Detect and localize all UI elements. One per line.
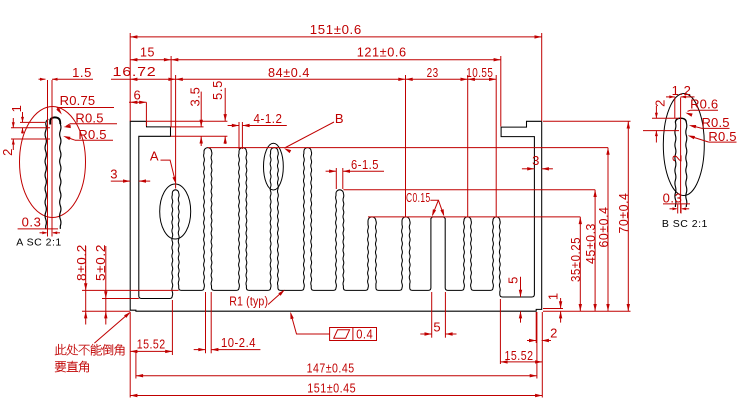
svg-text:147±0.45: 147±0.45 [307, 361, 355, 376]
svg-text:23: 23 [427, 65, 439, 80]
parallelism tolerance frame 0.4 with leader [290, 312, 376, 342]
svg-text:151±0.45: 151±0.45 [307, 381, 356, 396]
detail label B leader [284, 111, 344, 153]
detail A dimension 2 [0, 118, 15, 156]
svg-text:3: 3 [110, 167, 118, 182]
heatsink profile outline [130, 121, 542, 311]
dimension 147±0.45 (bottom) [136, 312, 537, 379]
dimension 15.52 (bottom right) [500, 299, 542, 364]
svg-text:121±0.6: 121±0.6 [357, 45, 407, 60]
detail A extension centerlines [48, 80, 53, 236]
svg-text:0.3: 0.3 [663, 190, 683, 205]
svg-text:5±0.2: 5±0.2 [93, 244, 108, 281]
dimension 60±0.4 (height, right column) [596, 148, 611, 312]
svg-text:5: 5 [433, 319, 441, 334]
svg-text:15: 15 [140, 45, 155, 60]
dimension 5±0.2 (first channel floor height) [93, 244, 108, 325]
svg-text:0.3: 0.3 [22, 215, 42, 230]
note: no chamfer here, must be right angle (Chinese) [55, 312, 131, 372]
dimension 15.52 (bottom left) [130, 300, 172, 398]
svg-text:C0.15: C0.15 [406, 190, 431, 205]
dimension 8±0.2 (left channel floor height) [74, 244, 89, 325]
dimensions 15 and 121±0.6 (top row 2) [130, 45, 501, 127]
dimension 10-2.4 (fin thickness, bottom) [194, 292, 261, 353]
dimension 6 (top-left step width) [129, 88, 146, 126]
right-side extension lines (fin tip levels) [208, 121, 631, 311]
detail A title text [16, 236, 61, 248]
svg-text:15.52: 15.52 [505, 348, 534, 363]
svg-text:4-1.2: 4-1.2 [254, 111, 283, 126]
dimension 70±0.4 (height, right column) [616, 121, 631, 311]
svg-text:2: 2 [670, 154, 685, 162]
svg-text:R0.6: R0.6 [690, 97, 718, 112]
dimensions 3.5 and 5.5 (top-left step heights) [147, 80, 228, 146]
detail A dimension 1.5 [39, 65, 94, 81]
dimension 45±0.3 (height, right column) [583, 190, 598, 311]
svg-text:60±0.4: 60±0.4 [596, 207, 611, 248]
detail B radius label R0.5 (lower) [688, 129, 737, 144]
left-side extension lines (floor levels) [82, 290, 179, 311]
svg-text:R0.5: R0.5 [75, 111, 103, 126]
svg-text:8±0.2: 8±0.2 [74, 244, 89, 281]
svg-text:1: 1 [9, 105, 24, 113]
detail A dimension 0.3 [18, 215, 60, 237]
svg-text:2: 2 [0, 148, 15, 156]
svg-text:B SC 2:1: B SC 2:1 [662, 218, 708, 230]
svg-text:1: 1 [545, 292, 560, 300]
svg-text:84±0.4: 84±0.4 [268, 65, 310, 80]
dimension 5 (right channel floor height) [506, 276, 523, 323]
dimension 6-1.5 (medium fin thickness) [326, 157, 384, 189]
detail callout ellipse A (main view) [160, 184, 191, 239]
svg-text:151±0.6: 151±0.6 [310, 22, 362, 37]
svg-text:70±0.4: 70±0.4 [616, 193, 631, 234]
detail B enclosing ellipse [663, 94, 704, 196]
svg-text:6-1.5: 6-1.5 [351, 157, 379, 172]
detail B enlarged fin tip (black) [675, 118, 687, 207]
detail B extension centerlines [675, 98, 681, 214]
detail A enlarged fin tip (black) [45, 117, 61, 229]
svg-text:6: 6 [133, 88, 141, 103]
svg-text:35±0.25: 35±0.25 [568, 237, 583, 282]
detail A radius label R0.5 (lower) [63, 127, 113, 142]
detail A radius label R0.75 [56, 93, 114, 115]
detail label A leader [150, 149, 176, 184]
detail A radius label R0.5 (upper) [64, 111, 118, 129]
svg-text:16.72: 16.72 [113, 64, 157, 79]
detail B radius label R0.6 [685, 97, 718, 117]
detail B dimension 2 (upper) [643, 99, 679, 142]
svg-text:3.5: 3.5 [188, 87, 203, 107]
fillet note R1 (typ) [229, 290, 285, 309]
svg-text:B: B [335, 111, 344, 126]
svg-text:5: 5 [506, 276, 521, 284]
detail B title text [662, 218, 708, 230]
svg-text:3: 3 [532, 153, 540, 168]
svg-text:0.4: 0.4 [356, 326, 373, 341]
dimension 3 (left wall thickness) [110, 167, 150, 183]
dimension 4-1.2 (tall fin thickness) [228, 111, 287, 149]
dimension 5 (wide fin width, bottom center) [420, 292, 456, 338]
detail B dimension 2 (centerline) [670, 154, 685, 162]
svg-text:A: A [150, 149, 159, 164]
svg-text:R1 (typ): R1 (typ) [229, 294, 268, 309]
svg-text:1.2: 1.2 [672, 83, 692, 98]
svg-text:2: 2 [653, 99, 668, 107]
svg-text:A SC 2:1: A SC 2:1 [16, 236, 61, 248]
svg-text:10.55: 10.55 [466, 65, 493, 80]
chamfer note C0.15 with V leader [406, 190, 444, 216]
svg-text:R0.75: R0.75 [60, 93, 96, 108]
detail B dimension 0.3 [663, 190, 690, 213]
svg-text:10-2.4: 10-2.4 [221, 335, 256, 350]
detail B dimension 1.2 [666, 83, 695, 98]
svg-text:15.52: 15.52 [137, 337, 166, 352]
svg-text:5.5: 5.5 [210, 80, 225, 100]
dimension 35±0.25 (height, right column) [568, 217, 583, 311]
detail A dimension 1 [9, 105, 50, 139]
dimension 1 (bottom-right step height) [543, 292, 563, 322]
dimension 3 (right wall thickness) [522, 153, 553, 170]
dimension 151±0.6 (top row 1)', overall width [130, 22, 542, 121]
dimensions 16.72 / 84±0.4 / 23 / 10.55 (top row 3) [111, 64, 496, 217]
dimension 2 (bottom-right step width) [527, 312, 558, 343]
dimension 151±0.45 (bottom) [130, 312, 542, 398]
svg-text:2: 2 [550, 325, 558, 340]
svg-text:1.5: 1.5 [72, 65, 92, 80]
detail A enclosing ellipse [20, 107, 86, 218]
svg-text:R0.5: R0.5 [708, 129, 736, 144]
detail callout ellipse B (main view) [264, 143, 284, 190]
detail B radius label R0.5 (upper) [689, 115, 730, 130]
